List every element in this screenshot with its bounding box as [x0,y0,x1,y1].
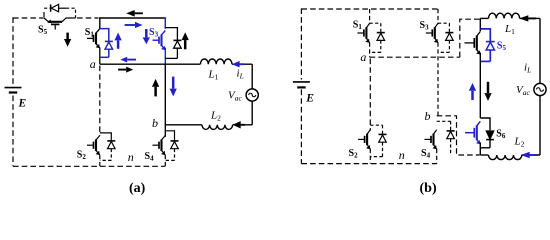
wire dashed b to freewheel bottom (b) [437,116,480,155]
current arrow blue up (through D1) [114,33,121,49]
transistor S3 (blue) [153,31,166,51]
wire S3 collector leg (blue) [164,17,166,28]
inductor L1 [200,59,232,64]
wire freewheel branch top node [479,18,481,31]
svg-text:b: b [425,109,431,123]
wire dashed S3 collector leg (b) [437,9,439,24]
svg-text:b: b [152,116,158,130]
wire dashed left vertical lower (b) [300,90,302,164]
wire L2 line left stub [480,154,488,156]
svg-text:S1: S1 [85,27,95,39]
svg-text:S4: S4 [421,148,431,160]
wire dashed top rail (b) [301,8,438,10]
wire dashed S4 emitter to n rail (b) [436,149,438,164]
current arrow black down (freewheel branch) [484,82,491,101]
diode D5 loop (b, blue) [480,29,490,41]
wire b-line left segment [165,124,202,126]
transistor S2 [87,136,100,156]
battery E (b) [293,82,310,88]
current arrow black left (on L1 line) [519,15,536,21]
wire L1 line left stub [480,17,488,19]
inductor L1 (b) [489,13,520,18]
diode D2 loop (dashed antiparallel diode of S2) [100,133,112,141]
AC source Vac (b) [534,83,546,95]
wire dashed S2 emitter to n rail [99,155,101,166]
transistor S1 (b) [357,23,369,43]
wire dashed S2 leg (b) [369,59,371,131]
svg-text:S3: S3 [420,20,430,32]
wire dashed left vertical lower [12,96,14,167]
inductor L2 [202,125,233,130]
wire right vertical upper [251,64,253,89]
wire S1 collector leg [99,17,101,28]
wire dashed a to freewheel top (b) [460,19,481,57]
svg-text:a: a [90,57,96,71]
svg-text:S1: S1 [353,19,363,31]
svg-text:Vac: Vac [228,89,242,102]
current arrow black down (S1 branch) [64,33,71,47]
wire dashed S3 emitter to node b (b) [437,43,439,116]
svg-text:iL: iL [524,62,531,75]
svg-text:n: n [128,150,134,164]
wire dashed a-line (b) [370,56,460,58]
wire S1 emitter to node a [99,48,101,65]
svg-text:L2: L2 [210,110,221,123]
wire L1 line right segment [520,17,540,19]
svg-text:E: E [18,97,27,109]
transistor S5 (b, black) [465,32,481,55]
current arrow black up (through D3) [182,32,189,49]
wire right vertical lower (b) [539,96,541,155]
svg-text:S5: S5 [38,25,48,37]
diode D2 loop (b, dashed) [370,125,382,134]
wire a-line right segment [232,63,252,65]
svg-text:a: a [360,50,366,64]
current arrow blue up (freewheel branch) [469,83,476,100]
wire dashed bottom rail n (b) [301,163,436,165]
svg-text:L2: L2 [514,136,525,149]
current arrow blue left (i_L on a-line) [232,61,244,68]
diode D4 loop (b, dashed) [437,121,451,130]
diode D1 loop (blue antiparallel diode of S1) [100,29,109,41]
svg-text:Vac: Vac [516,84,530,97]
current arrow black up (b leg) [152,79,159,97]
wire S3 emitter to crossing (blue) [164,48,166,65]
transistor S2 (b) [358,130,370,150]
transistor S3 (b) [426,23,438,43]
svg-text:S2: S2 [349,148,359,160]
wire L2 line right segment [522,154,540,156]
wire dashed left vertical upper [12,17,14,85]
wire dashed bottom rail n [13,165,165,167]
inductor L2 (b) [489,155,522,160]
current arrow blue down (S3 gate side) [143,29,150,44]
svg-text:L1: L1 [504,23,515,36]
battery E [5,88,22,93]
AC source Vac [246,89,258,101]
svg-text:(a): (a) [129,181,146,196]
svg-text:n: n [399,148,405,162]
svg-text:S3: S3 [149,27,159,39]
diode D6 loop (b, black, points down) [480,118,490,130]
diode D3 loop (b, dashed) [438,23,449,32]
transistor S1 [87,29,100,49]
wire dashed S5 to bridge [77,17,99,19]
wire right vertical lower [251,101,253,125]
wire a-line left segment [100,63,201,65]
diode D1 loop (b, dashed) [370,23,381,32]
svg-text:(b): (b) [420,181,437,196]
svg-text:S6: S6 [496,128,506,140]
wire dashed S4 emitter to n rail [164,155,166,166]
wire S6 emitter to L2 node [479,142,481,155]
current arrow black left (on b-line) [233,121,245,128]
wire dashed S2 leg [99,66,101,136]
svg-text:L1: L1 [208,69,219,82]
transistor S4 (b) [425,130,437,150]
svg-text:S2: S2 [77,150,87,162]
current arrow blue down (b leg) [170,77,177,97]
wire b leg vertical [164,64,166,137]
wire b-line right segment [233,124,253,126]
wire dashed S2 emitter to n rail (b) [369,149,371,164]
svg-text:S5: S5 [497,41,507,53]
svg-text:E: E [305,93,314,105]
transistor S6 (b, blue) [465,121,480,144]
current arrow black left (above top rail) [126,10,143,17]
wire dashed S1 emitter to node a (b) [369,43,371,58]
current arrow black right (below a-line) [118,67,133,73]
transistor S4 [153,136,166,156]
svg-text:iL: iL [237,67,244,80]
diode D5 (antiparallel of S5, points left) [44,4,76,18]
wire dashed left vertical upper (b) [300,8,302,79]
transistor S5 (horizontal IGBT) [44,18,76,30]
diode D4 loop (dashed antiparallel diode of S4) [165,131,174,141]
wire freewheel branch middle [479,53,481,119]
current arrow blue left (above a-line) [120,57,136,63]
current arrow blue left (on L2 line) [521,152,537,158]
current arrow blue right (below top rail) [125,22,143,28]
wire top rail solid [99,17,166,19]
wire right vertical upper (b) [539,18,541,83]
wire dashed top-left rail [13,17,44,19]
svg-text:S4: S4 [145,151,155,163]
wire dashed S1 collector leg (b) [369,9,371,24]
diode D3 loop (black antiparallel diode of S3) [165,28,177,40]
